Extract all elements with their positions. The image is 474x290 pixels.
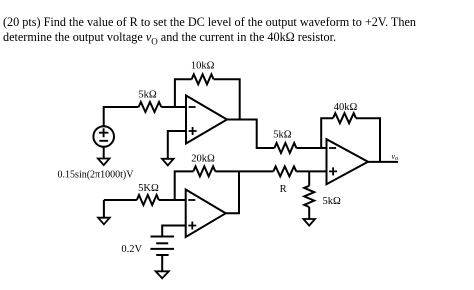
svg-text:0.2V: 0.2V	[121, 244, 142, 255]
svg-text:R: R	[280, 184, 287, 195]
svg-text:vo: vo	[392, 152, 399, 162]
svg-text:20kΩ: 20kΩ	[191, 153, 215, 164]
svg-text:5KΩ: 5KΩ	[138, 183, 159, 194]
svg-text:0.15sin(2π1000t)V: 0.15sin(2π1000t)V	[58, 170, 135, 181]
svg-text:10kΩ: 10kΩ	[191, 60, 215, 71]
svg-text:40kΩ: 40kΩ	[334, 102, 358, 113]
svg-text:5kΩ: 5kΩ	[273, 130, 292, 141]
svg-text:5kΩ: 5kΩ	[138, 90, 157, 101]
svg-text:5kΩ: 5kΩ	[323, 196, 342, 207]
